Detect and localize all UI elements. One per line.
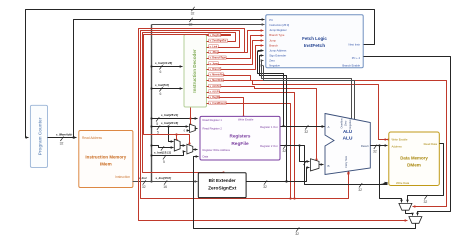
sign-extender U4 (Bit Extender ZeroSignExt)	[198, 173, 246, 198]
svg-text:Write Enable: Write Enable	[392, 138, 408, 142]
svg-text:6: 6	[160, 70, 162, 74]
wire jump-address (Register 1 Out up to Fetch)	[258, 51, 284, 127]
wire sign-extended value up to Fetch	[260, 56, 287, 182]
svg-text:PC: PC	[269, 18, 273, 22]
svg-text:Negative: Negative	[348, 119, 352, 130]
wire control s_Branch (decoder to Fetch)	[207, 46, 264, 70]
wire control s_CondBranch (decoder to bottom select row)	[207, 104, 291, 199]
svg-text:s_Link: s_Link	[210, 45, 218, 48]
svg-text:Jump Register: Jump Register	[269, 28, 286, 32]
wire PC value to Fetch PC input	[74, 20, 265, 138]
svg-text:s_JReg: s_JReg	[210, 51, 219, 54]
wire control s_JReg (decoder to Fetch)	[207, 31, 264, 53]
wire control mux M1 select (from decoder bottom)	[190, 108, 192, 125]
wire next-instr feedback loop (Fetch NextInstr to PC input)	[26, 10, 375, 138]
svg-text:DMem: DMem	[407, 163, 421, 168]
wire ALU result (to DMem Address and mux A)	[371, 145, 388, 147]
svg-text:Instruction Memory: Instruction Memory	[85, 155, 126, 160]
decoder output signal labels	[209, 33, 221, 36]
svg-text:Next Instr: Next Instr	[349, 43, 361, 47]
svg-text:Read Data: Read Data	[424, 142, 438, 146]
svg-text:ZeroSignExt: ZeroSignExt	[208, 186, 237, 192]
svg-text:s_Branch: s_Branch	[210, 68, 221, 71]
svg-text:Jump Address: Jump Address	[269, 48, 287, 52]
svg-text:Program Counter: Program Counter	[38, 117, 43, 155]
svg-text:Carry Size: Carry Size	[344, 155, 348, 168]
wire control s_RegDst (decoder to mux selects)	[144, 35, 231, 144]
svg-text:32: 32	[295, 232, 299, 236]
bus instruction vertical bus	[151, 25, 153, 182]
wire bit extender output (to ALUSrc mux input)	[247, 168, 310, 182]
svg-text:s_Inst[5:0]: s_Inst[5:0]	[155, 83, 170, 87]
svg-text:s_ZeroSignExt: s_ZeroSignExt	[210, 40, 227, 43]
wire mux A output to mux B	[406, 211, 413, 216]
mux M5 (memtoreg writeback mux A)	[399, 203, 412, 210]
register PC (Program Counter)	[30, 105, 47, 167]
svg-text:6: 6	[160, 92, 162, 96]
svg-text:Read Register 2: Read Register 2	[203, 127, 223, 131]
svg-text:Negative: Negative	[269, 64, 280, 68]
svg-text:s_IMemAddr: s_IMemAddr	[56, 132, 73, 136]
svg-text:s_BranchType: s_BranchType	[210, 57, 227, 60]
svg-text:s_Jump: s_Jump	[210, 62, 220, 65]
svg-text:Instruction: Instruction	[115, 175, 130, 179]
register-file U3 (Registers RegFile)	[200, 116, 280, 160]
svg-text:5: 5	[157, 130, 159, 134]
svg-text:s_Inst[15:0]: s_Inst[15:0]	[156, 176, 173, 180]
fetch-logic U2 (Fetch Logic InstFetch)	[266, 15, 363, 68]
svg-text:Jump: Jump	[269, 38, 276, 42]
svg-text:Registers: Registers	[230, 134, 251, 139]
svg-text:Branch: Branch	[269, 43, 278, 47]
svg-text:32: 32	[373, 149, 377, 153]
svg-text:s_CondBranch: s_CondBranch	[210, 102, 228, 105]
svg-text:Register 2 Out: Register 2 Out	[260, 144, 278, 148]
svg-text:s_ALUFn: s_ALUFn	[210, 91, 221, 94]
wire s_IMemAddr (PC to IMem Read Address)	[48, 137, 77, 139]
wire PC+4 (Fetch to mux B input)	[364, 57, 451, 216]
svg-text:32: 32	[60, 141, 64, 145]
wire control s_RegWr (decoder to RegFile Write Enable)	[207, 98, 244, 117]
mux M3 (write address select 2)	[187, 144, 193, 154]
svg-text:Read Address: Read Address	[82, 136, 102, 140]
wire write data (Register 2 Out to DMem Write Data)	[300, 146, 388, 185]
svg-text:Branch Type: Branch Type	[269, 33, 285, 37]
svg-text:s_Inst[15:11]: s_Inst[15:11]	[154, 151, 172, 155]
svg-text:Address: Address	[392, 145, 403, 149]
wire control s_ALUSrc (decoder to ALUSrc mux select)	[207, 87, 317, 160]
svg-text:Write Data: Write Data	[396, 181, 410, 185]
wire Register 2 Out (to ALUSrc mux and DMem write data)	[281, 146, 310, 162]
wire ALU negative flag to Fetch	[264, 66, 355, 120]
decoder U1 (Instruction Decoder)	[184, 35, 207, 108]
mux M2 (write address select 1)	[174, 139, 180, 151]
svg-text:Result: Result	[361, 144, 369, 148]
svg-text:32: 32	[282, 149, 286, 153]
svg-text:ALU: ALU	[343, 135, 353, 141]
svg-text:Zero: Zero	[269, 59, 275, 63]
svg-text:16: 16	[163, 185, 167, 189]
svg-text:s_RegWr: s_RegWr	[210, 96, 220, 99]
svg-text:Instruction [25:0]: Instruction [25:0]	[269, 23, 289, 27]
wire control s_ALUFn (decoder to ALU control)	[207, 93, 295, 199]
svg-text:Write Enable: Write Enable	[238, 117, 254, 121]
alu U5 (ALU)	[325, 114, 370, 175]
wire bus row to mux M2 lower input	[152, 146, 174, 148]
memory IMem (Instruction Memory)	[79, 131, 133, 188]
svg-text:s_ALUSrc: s_ALUSrc	[210, 85, 222, 88]
wire s_Inst[5:0] (bus to decoder funct)	[152, 88, 183, 90]
svg-text:s_Inst: s_Inst	[139, 176, 148, 180]
svg-text:32: 32	[263, 185, 267, 189]
svg-text:Zero: Zero	[344, 120, 348, 126]
mux M1 (read register 2 select)	[190, 124, 196, 132]
svg-text:IMem: IMem	[100, 162, 112, 167]
svg-text:Fetch Logic: Fetch Logic	[302, 36, 327, 41]
svg-text:Bit Extender: Bit Extender	[209, 178, 236, 183]
svg-text:0: 0	[184, 129, 186, 133]
wire s_Inst[25:21] (bus to Read Register 1)	[152, 118, 198, 120]
svg-text:Register 1 Out: Register 1 Out	[260, 125, 278, 129]
svg-text:Data Memory: Data Memory	[400, 156, 428, 161]
wire s_Inst[31:26] (bus to decoder opcode)	[152, 66, 183, 68]
wire s_Inst[15:0] (bus to Bit Extender)	[152, 181, 198, 183]
svg-text:32: 32	[142, 185, 146, 189]
wire control s_MemWrite (decoder to DMem Write Enable)	[207, 81, 388, 140]
svg-text:Branch Enable: Branch Enable	[342, 64, 360, 68]
svg-text:Read Register 1: Read Register 1	[203, 118, 223, 122]
svg-text:s_MemtoReg: s_MemtoReg	[210, 74, 225, 77]
svg-text:5: 5	[156, 122, 158, 126]
svg-text:B: B	[328, 164, 330, 168]
wire s_Inst[15:11] (bus to mux M3 lower input)	[152, 152, 186, 156]
svg-text:Overflow: Overflow	[339, 118, 343, 128]
mux M6 (link writeback mux B)	[409, 217, 422, 224]
svg-text:RegFile: RegFile	[231, 141, 249, 147]
svg-text:32: 32	[304, 130, 308, 134]
wire Register 1 Out to ALU A	[281, 126, 325, 128]
wire control s_MemtoReg-b (decoder loop to mux B select)	[139, 29, 408, 221]
svg-text:A: A	[328, 125, 330, 129]
memory DMem (Data Memory)	[389, 132, 440, 186]
wire control s_BranchType (decoder to Fetch)	[207, 36, 264, 59]
svg-text:Instruction Decoder: Instruction Decoder	[192, 49, 197, 93]
wire ALU A input arrowhead	[321, 126, 325, 128]
svg-text:Data: Data	[203, 155, 209, 159]
wire instruction output s_Inst (IMem to bus)	[133, 181, 152, 183]
wire ALU zero flag to Fetch	[262, 61, 352, 120]
wire writeback (mux B to RegFile Data)	[194, 157, 416, 229]
mux M4 (ALUSrc mux)	[311, 159, 320, 171]
svg-text:s_Inst[25:21]: s_Inst[25:21]	[161, 113, 179, 117]
svg-text:s_RegDst: s_RegDst	[210, 34, 221, 37]
svg-text:s_Inst[31:26]: s_Inst[31:26]	[155, 61, 173, 65]
wire control s_MemtoReg (decoder to mux A select)	[207, 76, 447, 207]
svg-text:Sign Extender: Sign Extender	[269, 53, 286, 57]
svg-text:32: 32	[424, 200, 428, 204]
svg-text:s_Inst[20:16]: s_Inst[20:16]	[161, 121, 179, 125]
svg-text:32: 32	[358, 188, 362, 192]
svg-text:Register Write Address: Register Write Address	[203, 148, 231, 152]
wire control s_Link (decoder loop to ALU control)	[141, 31, 349, 199]
wire DMem read data (to mux A input)	[408, 144, 444, 203]
svg-text:32: 32	[191, 12, 195, 16]
wire s_Inst[20:16] (bus to mux M1 and mux M2)	[152, 126, 189, 128]
wire control s_Jump (decoder to Fetch)	[207, 41, 264, 65]
svg-text:5: 5	[163, 160, 165, 164]
wire control s_ZeroSignExt (decoder to Bit Extender select)	[143, 33, 236, 173]
svg-text:InstFetch: InstFetch	[304, 43, 325, 49]
svg-text:PC + 4: PC + 4	[352, 56, 361, 60]
svg-text:s_MemWrite: s_MemWrite	[210, 79, 225, 82]
